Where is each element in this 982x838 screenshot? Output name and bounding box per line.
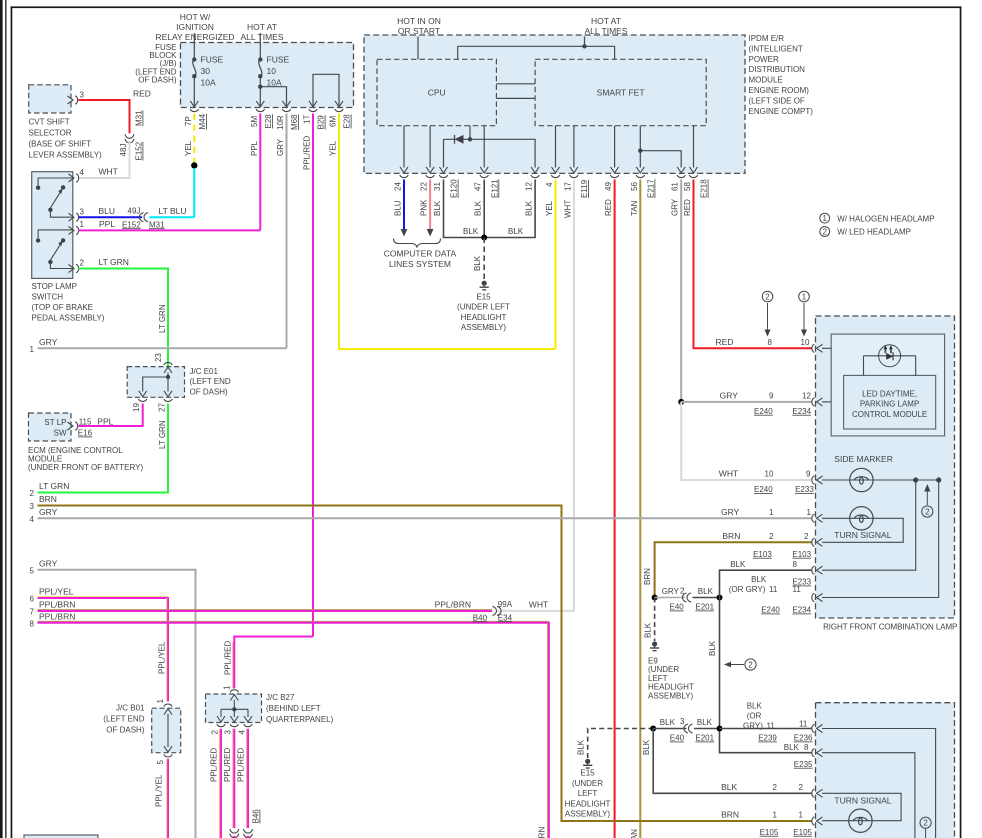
svg-text:(UNDER: (UNDER [572, 779, 603, 788]
annotation 2 arrow left [727, 664, 744, 666]
svg-text:(LEFT SIDE OF: (LEFT SIDE OF [749, 96, 805, 105]
svg-text:56: 56 [630, 182, 639, 191]
svg-text:(OR GRY): (OR GRY) [729, 585, 766, 594]
svg-text:LED DAYTIME,: LED DAYTIME, [862, 390, 917, 399]
lamp1 pin 12 [812, 398, 823, 406]
svg-text:2: 2 [822, 227, 827, 236]
lamp1 pin 1 [812, 514, 823, 522]
label J/C B01 [103, 704, 145, 735]
wire PPL from 5M down [259, 114, 261, 231]
bottom-left component box (cut off) [24, 835, 98, 838]
svg-text:(LEFT END: (LEFT END [190, 377, 231, 386]
svg-text:BLK: BLK [698, 587, 714, 596]
svg-text:(BASE OF SHIFT: (BASE OF SHIFT [29, 140, 92, 149]
svg-text:BRN: BRN [722, 531, 740, 541]
svg-text:TURN SIGNAL: TURN SIGNAL [834, 796, 891, 806]
svg-text:1: 1 [80, 220, 85, 229]
IPDM pin number labels [394, 182, 693, 191]
svg-text:LINES SYSTEM: LINES SYSTEM [389, 259, 451, 269]
IPDM pin 31 [439, 167, 447, 178]
svg-text:CONTROL MODULE: CONTROL MODULE [852, 410, 927, 419]
IPDM pin 56 [636, 167, 644, 178]
svg-text:E201: E201 [695, 734, 714, 743]
svg-text:ALL TIMES: ALL TIMES [241, 32, 284, 42]
svg-text:RIGHT FRONT COMBINATION LAMP: RIGHT FRONT COMBINATION LAMP [823, 623, 957, 632]
svg-text:1: 1 [156, 699, 165, 704]
svg-text:3: 3 [680, 717, 685, 726]
wire YEL dashed from 7P [193, 114, 195, 165]
svg-text:1: 1 [799, 810, 804, 819]
IPDM pin 12 [531, 167, 539, 178]
svg-text:3: 3 [80, 208, 85, 217]
svg-text:5M: 5M [250, 116, 259, 127]
svg-text:PPL: PPL [99, 219, 115, 229]
svg-text:YEL: YEL [545, 200, 554, 216]
svg-text:PPL/RED: PPL/RED [223, 748, 232, 782]
svg-text:49J: 49J [128, 207, 141, 216]
fuse block pin 6M [335, 101, 343, 112]
svg-text:BLK: BLK [525, 200, 534, 216]
CPU-FET bus lines [496, 83, 535, 85]
wire RED pin 49 [614, 180, 616, 838]
svg-text:BLK: BLK [697, 718, 713, 727]
fuse FUSE 10 10A [259, 33, 262, 107]
connector B40/E34 on row 7 [492, 606, 501, 615]
svg-text:2: 2 [210, 730, 219, 735]
svg-text:HOT AT: HOT AT [247, 22, 277, 32]
svg-text:B29: B29 [317, 115, 326, 130]
svg-text:COMPUTER DATA: COMPUTER DATA [384, 249, 457, 259]
svg-text:2: 2 [765, 292, 770, 301]
wire PPL/RED from 1T down [312, 114, 314, 637]
IPDM connector labels [450, 179, 709, 198]
svg-text:CPU: CPU [428, 88, 446, 98]
svg-text:E15: E15 [476, 293, 491, 302]
junction dot feed [582, 44, 586, 48]
svg-text:E103: E103 [792, 550, 811, 559]
svg-text:61: 61 [671, 182, 680, 191]
svg-text:10A: 10A [201, 78, 216, 88]
svg-text:HEADLIGHT: HEADLIGHT [461, 313, 507, 322]
SMART FET box [535, 59, 706, 125]
svg-text:(TOP OF BRAKE: (TOP OF BRAKE [32, 303, 94, 312]
svg-text:J/C B01: J/C B01 [116, 704, 145, 713]
diagram frame top border [11, 6, 962, 8]
svg-text:CVT SHIFT: CVT SHIFT [29, 118, 70, 127]
label J/C B27 [266, 693, 334, 724]
fuse block J/B box [181, 43, 354, 108]
svg-text:E218: E218 [700, 179, 709, 198]
svg-text:GRY): GRY) [743, 721, 763, 730]
connector M31/E152 on RED/WHT [125, 134, 134, 143]
svg-text:GRY: GRY [276, 138, 285, 156]
wire PPL/RED to J/C B27 [234, 637, 313, 689]
svg-text:12: 12 [802, 391, 811, 400]
svg-text:RED: RED [133, 89, 151, 99]
svg-text:E40: E40 [670, 734, 685, 743]
wire row 3 BRN [38, 506, 813, 822]
LED module box [844, 375, 936, 429]
svg-text:2: 2 [923, 819, 928, 828]
diagram frame right border [960, 6, 962, 838]
svg-text:8: 8 [768, 338, 773, 347]
svg-text:BLK: BLK [576, 739, 585, 755]
label HOT IN ON OR START [397, 16, 441, 36]
svg-text:7P: 7P [184, 116, 193, 126]
svg-text:OF DASH): OF DASH) [190, 388, 229, 397]
svg-text:8: 8 [30, 620, 35, 629]
wire BLK dashed to E9 ground [654, 598, 656, 642]
svg-text:M44: M44 [198, 113, 207, 129]
svg-text:FUSE: FUSE [267, 55, 290, 65]
svg-text:E236: E236 [794, 734, 813, 743]
IPDM wire color labels [394, 198, 693, 218]
svg-text:10R: 10R [276, 115, 285, 130]
svg-text:BLK: BLK [433, 200, 442, 216]
wire BLU pin 3 [79, 216, 143, 218]
svg-text:BLK: BLK [660, 718, 676, 727]
svg-text:(LEFT END: (LEFT END [103, 715, 144, 724]
svg-text:WHT: WHT [719, 469, 738, 479]
junction BLK bus [481, 235, 487, 241]
svg-text:2: 2 [769, 532, 774, 541]
fuse block label [135, 43, 177, 85]
svg-text:48J: 48J [119, 144, 128, 157]
wire row 1 GRY [38, 347, 287, 349]
lamp1 pin 8 [812, 566, 823, 574]
wire LT BLU vertical [193, 168, 195, 217]
svg-text:BLU: BLU [394, 200, 403, 216]
wire RED pin 58 [694, 180, 813, 349]
junction dot row 2 left [650, 726, 656, 732]
svg-text:WHT: WHT [563, 200, 572, 218]
SMART FET pin lines [556, 126, 694, 168]
J/C B27 pin 1 entry [230, 690, 238, 701]
svg-text:E28: E28 [343, 114, 352, 129]
svg-text:PPL/BRN: PPL/BRN [537, 827, 546, 838]
svg-text:LEFT: LEFT [648, 674, 668, 683]
svg-text:115: 115 [79, 418, 92, 427]
annotation arrows 2 and 1 [762, 291, 773, 302]
wire BLK pin 12 [484, 180, 535, 238]
splice dot YEL/LT BLU [191, 162, 197, 168]
svg-text:LT GRN: LT GRN [99, 257, 129, 267]
svg-text:10A: 10A [267, 78, 282, 88]
svg-text:BLK: BLK [747, 702, 763, 711]
turn signal loop lamp2 [822, 793, 901, 820]
wire row 7 PPL/BRN [38, 609, 493, 611]
svg-text:2: 2 [30, 489, 35, 498]
svg-text:HEADLIGHT: HEADLIGHT [565, 799, 611, 808]
svg-text:E28: E28 [264, 114, 273, 129]
svg-text:WHT: WHT [529, 599, 548, 609]
svg-text:LT GRN: LT GRN [158, 420, 167, 449]
svg-text:1: 1 [769, 508, 774, 517]
svg-text:E239: E239 [758, 734, 777, 743]
stop lamp pin 3 [69, 213, 79, 221]
svg-text:BRN: BRN [39, 494, 57, 504]
svg-text:2: 2 [799, 783, 804, 792]
svg-text:PPL/RED: PPL/RED [303, 136, 312, 170]
svg-text:LT BLU: LT BLU [159, 206, 187, 216]
svg-text:TAN: TAN [630, 829, 639, 838]
svg-text:9: 9 [769, 391, 774, 400]
svg-text:W/ HALOGEN HEADLAMP: W/ HALOGEN HEADLAMP [837, 214, 934, 223]
svg-text:1: 1 [802, 292, 807, 301]
svg-text:BLK: BLK [474, 200, 483, 216]
switch 1 internals [38, 178, 73, 217]
svg-text:10: 10 [765, 470, 774, 479]
brace computer data [394, 239, 441, 248]
connector E40/E201 row 2 [684, 724, 693, 733]
svg-text:E121: E121 [490, 179, 499, 198]
svg-text:49: 49 [604, 182, 613, 191]
svg-text:E233: E233 [795, 485, 814, 494]
svg-text:M68: M68 [290, 114, 299, 130]
CVT pin 3 [68, 96, 78, 104]
svg-text:M31: M31 [149, 220, 165, 229]
ground E9 [650, 641, 659, 650]
connector E40/E201 row 1 [682, 593, 691, 602]
svg-text:OF DASH): OF DASH) [138, 76, 177, 85]
wire BLK down to lamp2 pin 2 [653, 729, 812, 794]
svg-text:PPL/BRN: PPL/BRN [39, 611, 75, 621]
svg-text:5: 5 [30, 567, 35, 576]
svg-text:(OR: (OR [747, 712, 762, 721]
svg-text:E103: E103 [753, 550, 772, 559]
svg-text:QUARTERPANEL): QUARTERPANEL) [266, 715, 334, 724]
svg-text:BRN: BRN [721, 809, 739, 819]
svg-text:1: 1 [30, 345, 35, 354]
svg-text:BLK: BLK [730, 560, 746, 569]
wire row 6 PPL/YEL [38, 596, 169, 598]
label E9 (UNDER LEFT HEADLIGHT ASSEMBLY) [648, 657, 694, 701]
annotation 2 lamp2 [920, 817, 931, 828]
svg-text:IGNITION: IGNITION [176, 22, 214, 32]
svg-text:PPL: PPL [250, 140, 259, 156]
wire row 5 GRY [38, 570, 196, 838]
svg-text:PPL/BRN: PPL/BRN [39, 599, 75, 609]
svg-text:19: 19 [132, 403, 141, 412]
svg-text:(UNDER LEFT: (UNDER LEFT [457, 303, 510, 312]
wire BLK vertical lamp pins 8 [720, 570, 813, 753]
svg-text:1: 1 [773, 810, 778, 819]
svg-text:6M: 6M [329, 116, 338, 127]
wire BLK pin 31 [444, 180, 485, 238]
wire PPL pin 1 [79, 229, 261, 231]
svg-text:ENGINE COMPT): ENGINE COMPT) [749, 107, 814, 116]
svg-text:2: 2 [804, 532, 809, 541]
svg-text:J/C B27: J/C B27 [266, 693, 295, 702]
svg-text:M31: M31 [135, 110, 144, 126]
svg-text:LEVER ASSEMBLY): LEVER ASSEMBLY) [29, 151, 103, 160]
diagram frame left border [11, 6, 13, 838]
label HOT AT ALL TIMES (IPDM) [585, 16, 628, 36]
lamp2 pin 11 [812, 724, 823, 732]
svg-text:HOT IN ON: HOT IN ON [397, 16, 441, 26]
wire BLK conn to dot [693, 597, 720, 599]
label HOT W/ IGNITION RELAY ENERGIZED [155, 12, 234, 42]
lamp2 pin 1 [812, 817, 823, 825]
ST LP SW pin 115 [68, 422, 78, 430]
J/C B01 box [152, 708, 181, 753]
CVT shift selector box [29, 85, 71, 113]
wire RED from CVT pin 3 [79, 100, 130, 133]
turn signal bulb 1 [850, 507, 873, 530]
svg-text:E9: E9 [648, 657, 658, 666]
junction GRY [678, 399, 684, 405]
wire GRY to connector E40 [655, 597, 685, 599]
svg-text:E15: E15 [580, 769, 595, 778]
wire BRN from lamp1 pin 2 [655, 542, 812, 597]
svg-text:E235: E235 [794, 760, 813, 769]
legend 1 W/ HALOGEN HEADLAMP [820, 213, 830, 223]
svg-text:LT GRN: LT GRN [158, 304, 167, 333]
svg-text:GRY: GRY [720, 390, 739, 400]
svg-text:BLK: BLK [721, 782, 737, 792]
LED wiring [864, 356, 916, 376]
wire LT BLU [150, 216, 195, 218]
svg-text:30: 30 [201, 66, 211, 76]
J/C B27 pin 3 [230, 716, 238, 727]
svg-text:LT GRN: LT GRN [39, 481, 69, 491]
svg-text:3: 3 [80, 91, 85, 100]
J/C E01 pin 23 entry [164, 362, 172, 373]
svg-text:HEADLIGHT: HEADLIGHT [648, 683, 694, 692]
turn signal bulb 2 [849, 809, 872, 832]
svg-text:24: 24 [394, 182, 403, 191]
svg-text:BLK: BLK [473, 255, 482, 271]
fuse FUSE 30 10A [193, 33, 196, 107]
svg-text:4: 4 [80, 168, 85, 177]
wire WHT to stop lamp pin 4 [79, 141, 130, 179]
fuse block pin 10R [282, 101, 290, 112]
svg-text:BLK: BLK [784, 743, 800, 752]
J/C B27 pin 4 [244, 716, 252, 727]
junction dot 2 [717, 595, 723, 601]
svg-text:RED: RED [716, 337, 734, 347]
lamp1 pin 2 [812, 538, 823, 546]
svg-text:RED: RED [683, 199, 692, 216]
ST LP SW box [29, 413, 72, 441]
svg-text:6: 6 [30, 595, 35, 604]
wire WHT pin 17 [498, 180, 574, 611]
fuse block pin 1T [309, 101, 317, 112]
svg-text:ASSEMBLY): ASSEMBLY) [648, 691, 694, 700]
svg-text:B40: B40 [473, 613, 488, 622]
svg-text:PPL/BRN: PPL/BRN [435, 599, 471, 609]
svg-text:SWITCH: SWITCH [32, 293, 64, 302]
IPDM pin 22 [426, 167, 434, 178]
svg-text:POWER: POWER [749, 55, 779, 64]
lamp2 pin 2 [812, 789, 823, 797]
wire PPL from pin 19 [79, 404, 143, 427]
svg-text:E217: E217 [647, 179, 656, 198]
stop lamp pin 1 [69, 226, 79, 234]
svg-text:RED: RED [604, 199, 613, 216]
svg-text:E240: E240 [754, 407, 773, 416]
svg-text:E240: E240 [754, 485, 773, 494]
IPDM pin 61 [677, 167, 685, 178]
IPDM pin 47 [480, 167, 488, 178]
svg-text:ST LP: ST LP [44, 418, 66, 427]
svg-text:BLK: BLK [708, 640, 717, 656]
svg-text:E240: E240 [761, 606, 780, 615]
svg-text:YEL: YEL [329, 140, 338, 156]
svg-text:11: 11 [769, 585, 778, 594]
CPU box [377, 59, 496, 125]
junction dot E9 row [652, 595, 658, 601]
J/C B27 internals [221, 700, 248, 717]
svg-text:47: 47 [474, 182, 483, 191]
svg-text:PARKING LAMP: PARKING LAMP [860, 400, 919, 409]
label E15 (UNDER LEFT HEADLIGHT ASSEMBLY) [457, 293, 510, 333]
svg-text:12: 12 [525, 182, 534, 191]
svg-text:4: 4 [30, 515, 35, 524]
J/C B01 pin 1 entry [164, 704, 172, 715]
svg-text:(UNDER FRONT OF BATTERY): (UNDER FRONT OF BATTERY) [28, 463, 143, 472]
wire PNK pin 22 [429, 180, 431, 230]
svg-text:BLK: BLK [463, 227, 479, 236]
svg-text:99A: 99A [498, 600, 513, 609]
svg-text:HOT W/: HOT W/ [180, 12, 211, 22]
annotation 2 up arrow [926, 489, 928, 505]
svg-text:GRY: GRY [671, 198, 680, 216]
wire BLK dot to connector [653, 728, 686, 730]
LED symbol [879, 345, 901, 367]
svg-text:ASSEMBLY): ASSEMBLY) [565, 810, 611, 819]
svg-text:TURN SIGNAL: TURN SIGNAL [834, 530, 891, 540]
left front combination lamp box (bottom) [816, 703, 955, 838]
switch 2 internals [38, 230, 73, 269]
svg-text:E234: E234 [792, 606, 811, 615]
wire row 4 GRY [38, 517, 813, 519]
svg-text:BLU: BLU [99, 206, 116, 216]
svg-text:3: 3 [224, 730, 233, 735]
wire BLK conn to dot2 [694, 728, 720, 730]
svg-text:2: 2 [925, 507, 930, 516]
J/C B01 pin 5 [164, 746, 172, 757]
svg-text:E201: E201 [695, 603, 714, 612]
inline connectors on wires 3,4 [230, 829, 239, 838]
wire BLK dashed to E15 [483, 238, 485, 281]
left margin rule (outer) [0, 0, 3, 838]
wire BLK pin 47 [483, 180, 485, 238]
svg-text:BRN: BRN [643, 568, 652, 585]
svg-text:GRY: GRY [721, 507, 740, 517]
wire BLK dot2 to lamp2 pin 11 [720, 728, 813, 730]
ground E15 [480, 281, 489, 290]
wire YEL pin 4 [555, 180, 557, 350]
svg-text:BLK: BLK [642, 739, 651, 755]
svg-text:E152: E152 [135, 141, 144, 160]
svg-text:LEFT: LEFT [578, 789, 598, 798]
svg-text:SIDE MARKER: SIDE MARKER [834, 454, 893, 464]
svg-text:PNK: PNK [420, 199, 429, 216]
svg-text:PPL/RED: PPL/RED [237, 748, 246, 782]
wire row 8 PPL/BRN [38, 620, 549, 622]
wires PPL/RED below J/C B27 [220, 729, 222, 838]
wire BLK lamp1 pin 8 internal [822, 482, 916, 570]
svg-text:E105: E105 [793, 828, 812, 837]
svg-text:58: 58 [683, 182, 692, 191]
svg-text:ENGINE ROOM): ENGINE ROOM) [749, 86, 810, 95]
J/C E01 pin 27 [164, 391, 172, 402]
wire LT GRN from pin 27 [38, 404, 169, 493]
svg-text:DISTRIBUTION: DISTRIBUTION [749, 65, 806, 74]
svg-text:PPL/YEL: PPL/YEL [158, 641, 167, 674]
svg-text:11: 11 [793, 585, 802, 594]
